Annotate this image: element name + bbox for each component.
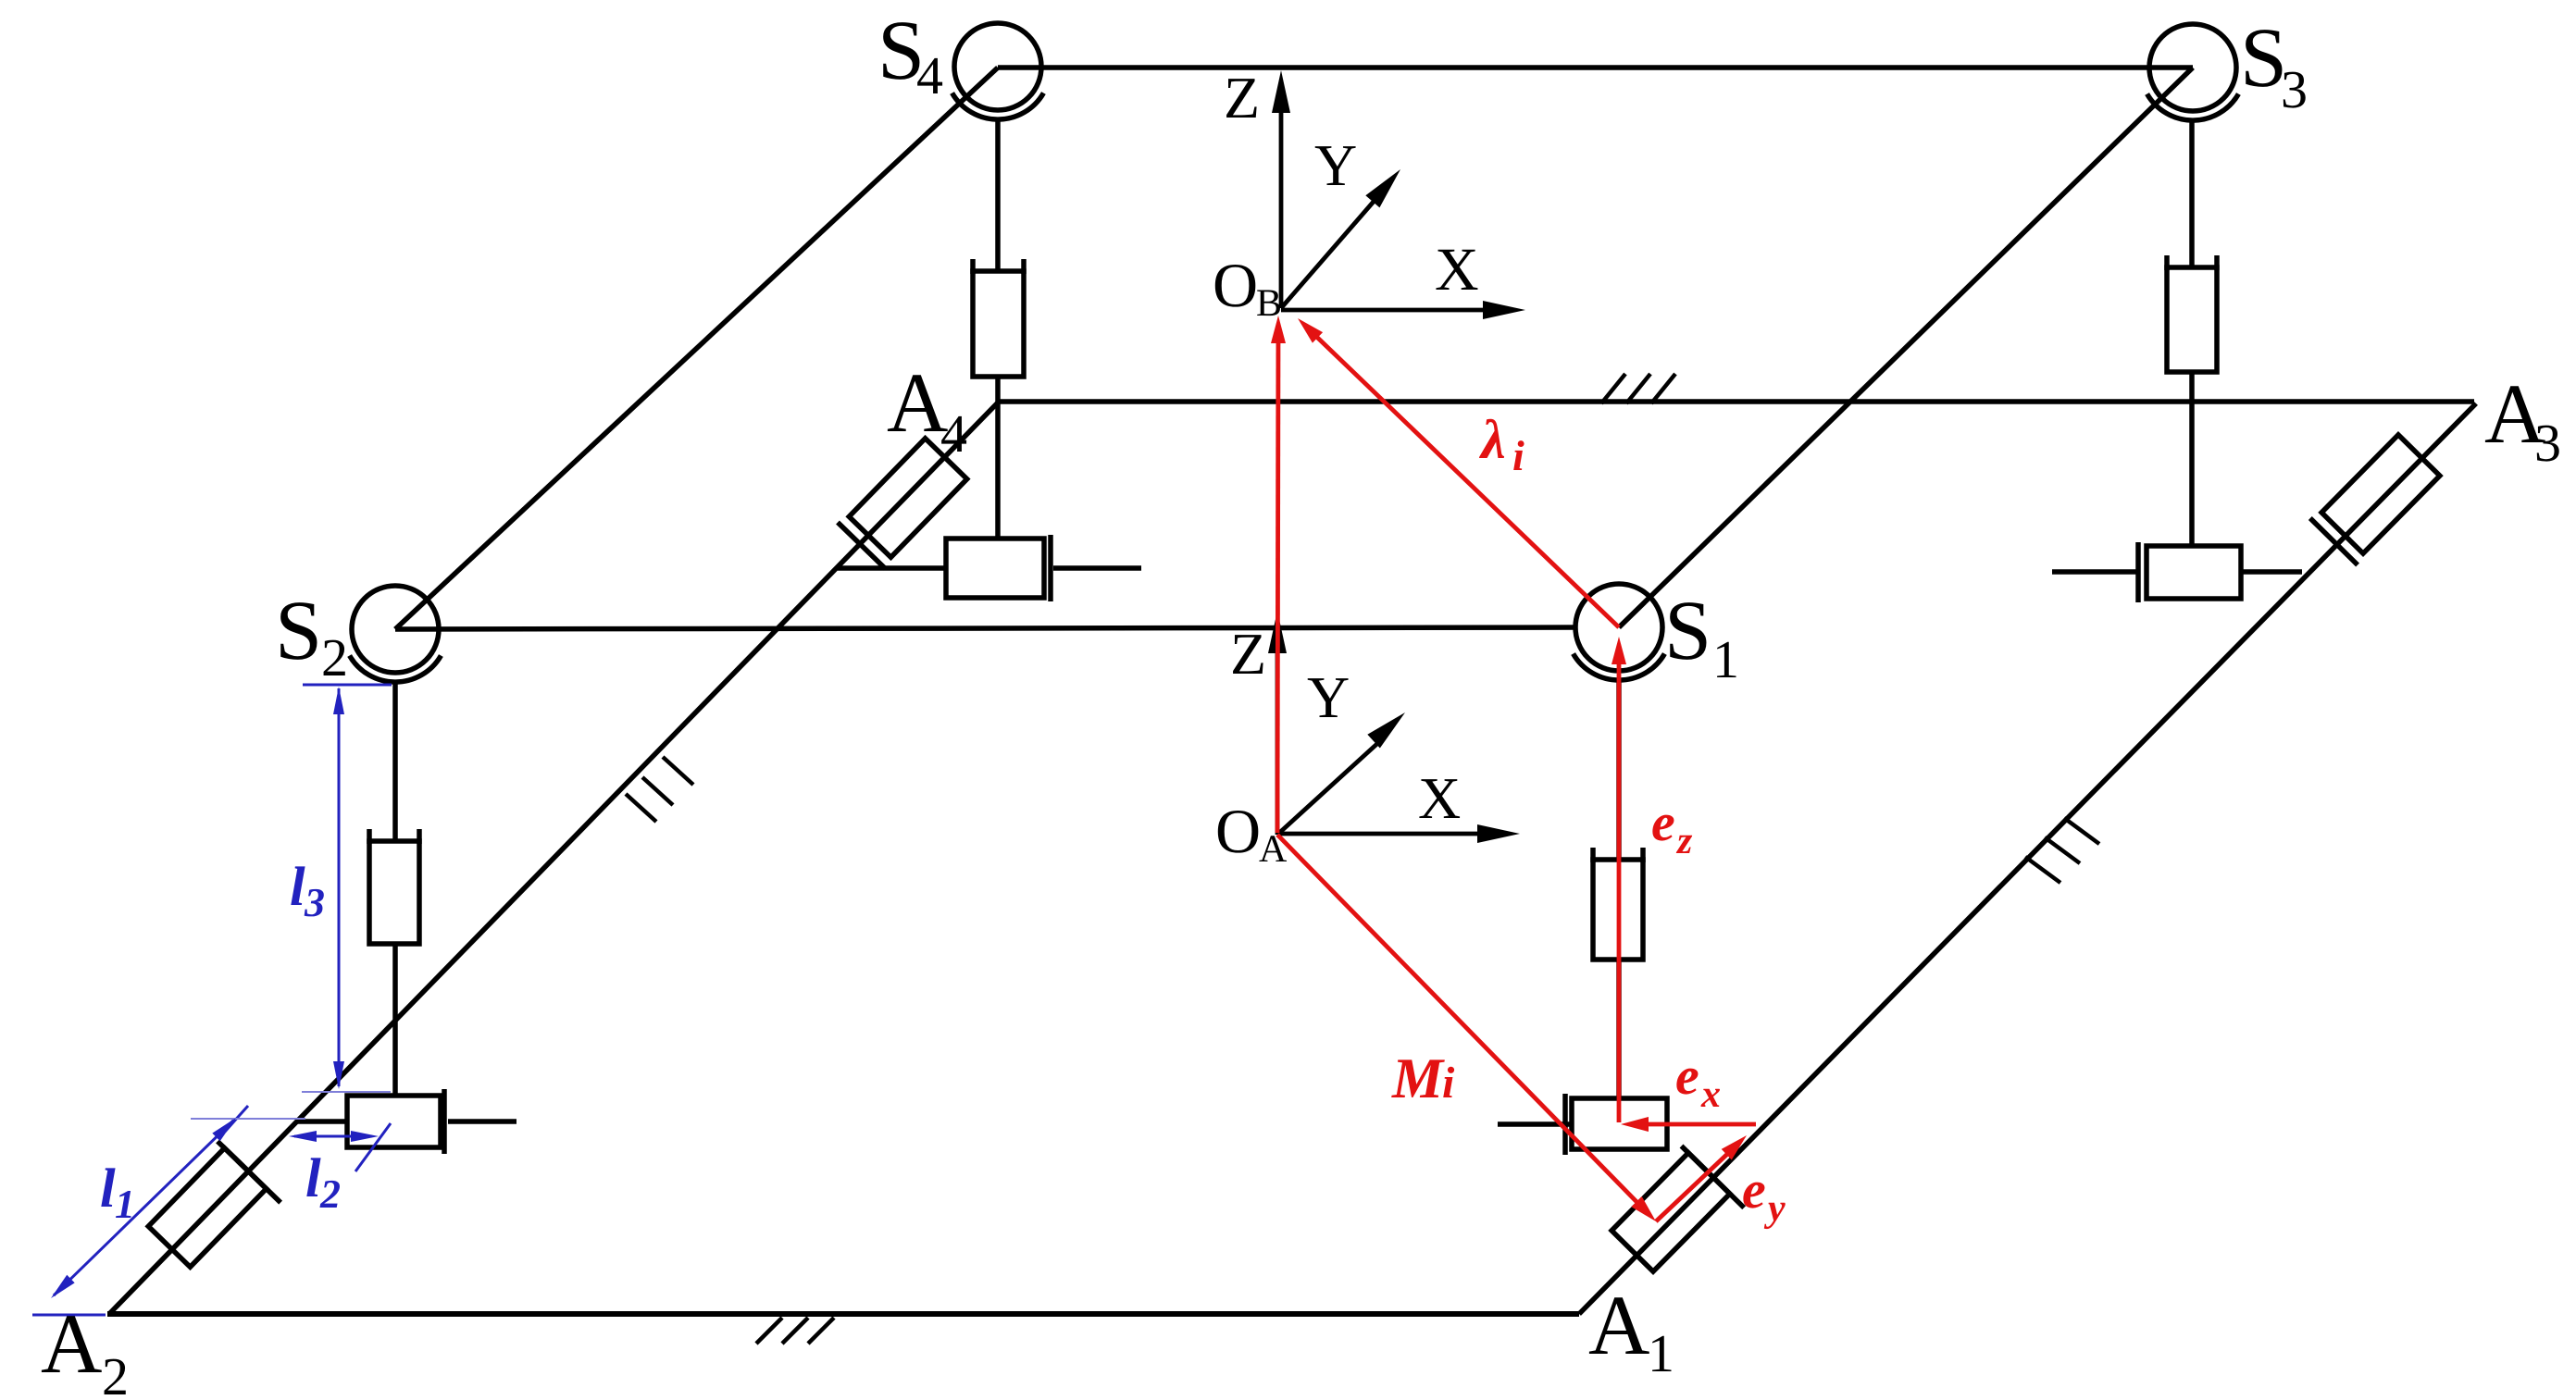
svg-text:3: 3 — [2281, 59, 2308, 119]
svg-text:3: 3 — [304, 880, 325, 925]
svg-text:O: O — [1215, 796, 1261, 866]
svg-text:Z: Z — [1230, 621, 1266, 687]
svg-text:3: 3 — [2534, 413, 2561, 473]
svg-text:X: X — [1435, 236, 1479, 304]
svg-text:4: 4 — [940, 403, 967, 464]
svg-text:A: A — [887, 355, 948, 450]
svg-text:l: l — [100, 1158, 116, 1219]
svg-text:2: 2 — [319, 1171, 341, 1217]
svg-text:S: S — [1664, 583, 1711, 677]
svg-text:e: e — [1675, 1046, 1699, 1106]
svg-text:z: z — [1675, 820, 1693, 862]
svg-text:4: 4 — [916, 45, 943, 105]
svg-text:Z: Z — [1224, 65, 1260, 130]
svg-text:A: A — [1259, 828, 1288, 871]
svg-text:l: l — [305, 1147, 321, 1208]
svg-text:2: 2 — [102, 1346, 129, 1400]
svg-text:X: X — [1418, 765, 1461, 831]
svg-text:l: l — [290, 856, 305, 917]
svg-text:λ: λ — [1478, 409, 1506, 470]
svg-text:A: A — [1588, 1278, 1649, 1372]
svg-text:1: 1 — [115, 1182, 135, 1227]
svg-text:O: O — [1213, 250, 1258, 320]
svg-text:S: S — [275, 583, 322, 677]
svg-text:e: e — [1651, 792, 1675, 852]
svg-text:i: i — [1442, 1059, 1455, 1108]
svg-text:Y: Y — [1307, 664, 1350, 730]
svg-text:2: 2 — [321, 627, 348, 688]
svg-text:x: x — [1700, 1073, 1721, 1116]
svg-text:1: 1 — [1648, 1323, 1674, 1383]
svg-text:e: e — [1742, 1159, 1766, 1220]
svg-text:i: i — [1512, 432, 1524, 479]
svg-text:Y: Y — [1314, 132, 1357, 198]
svg-text:B: B — [1256, 282, 1282, 325]
svg-text:M: M — [1391, 1047, 1445, 1110]
svg-text:A: A — [41, 1296, 102, 1391]
svg-text:1: 1 — [1712, 629, 1739, 689]
